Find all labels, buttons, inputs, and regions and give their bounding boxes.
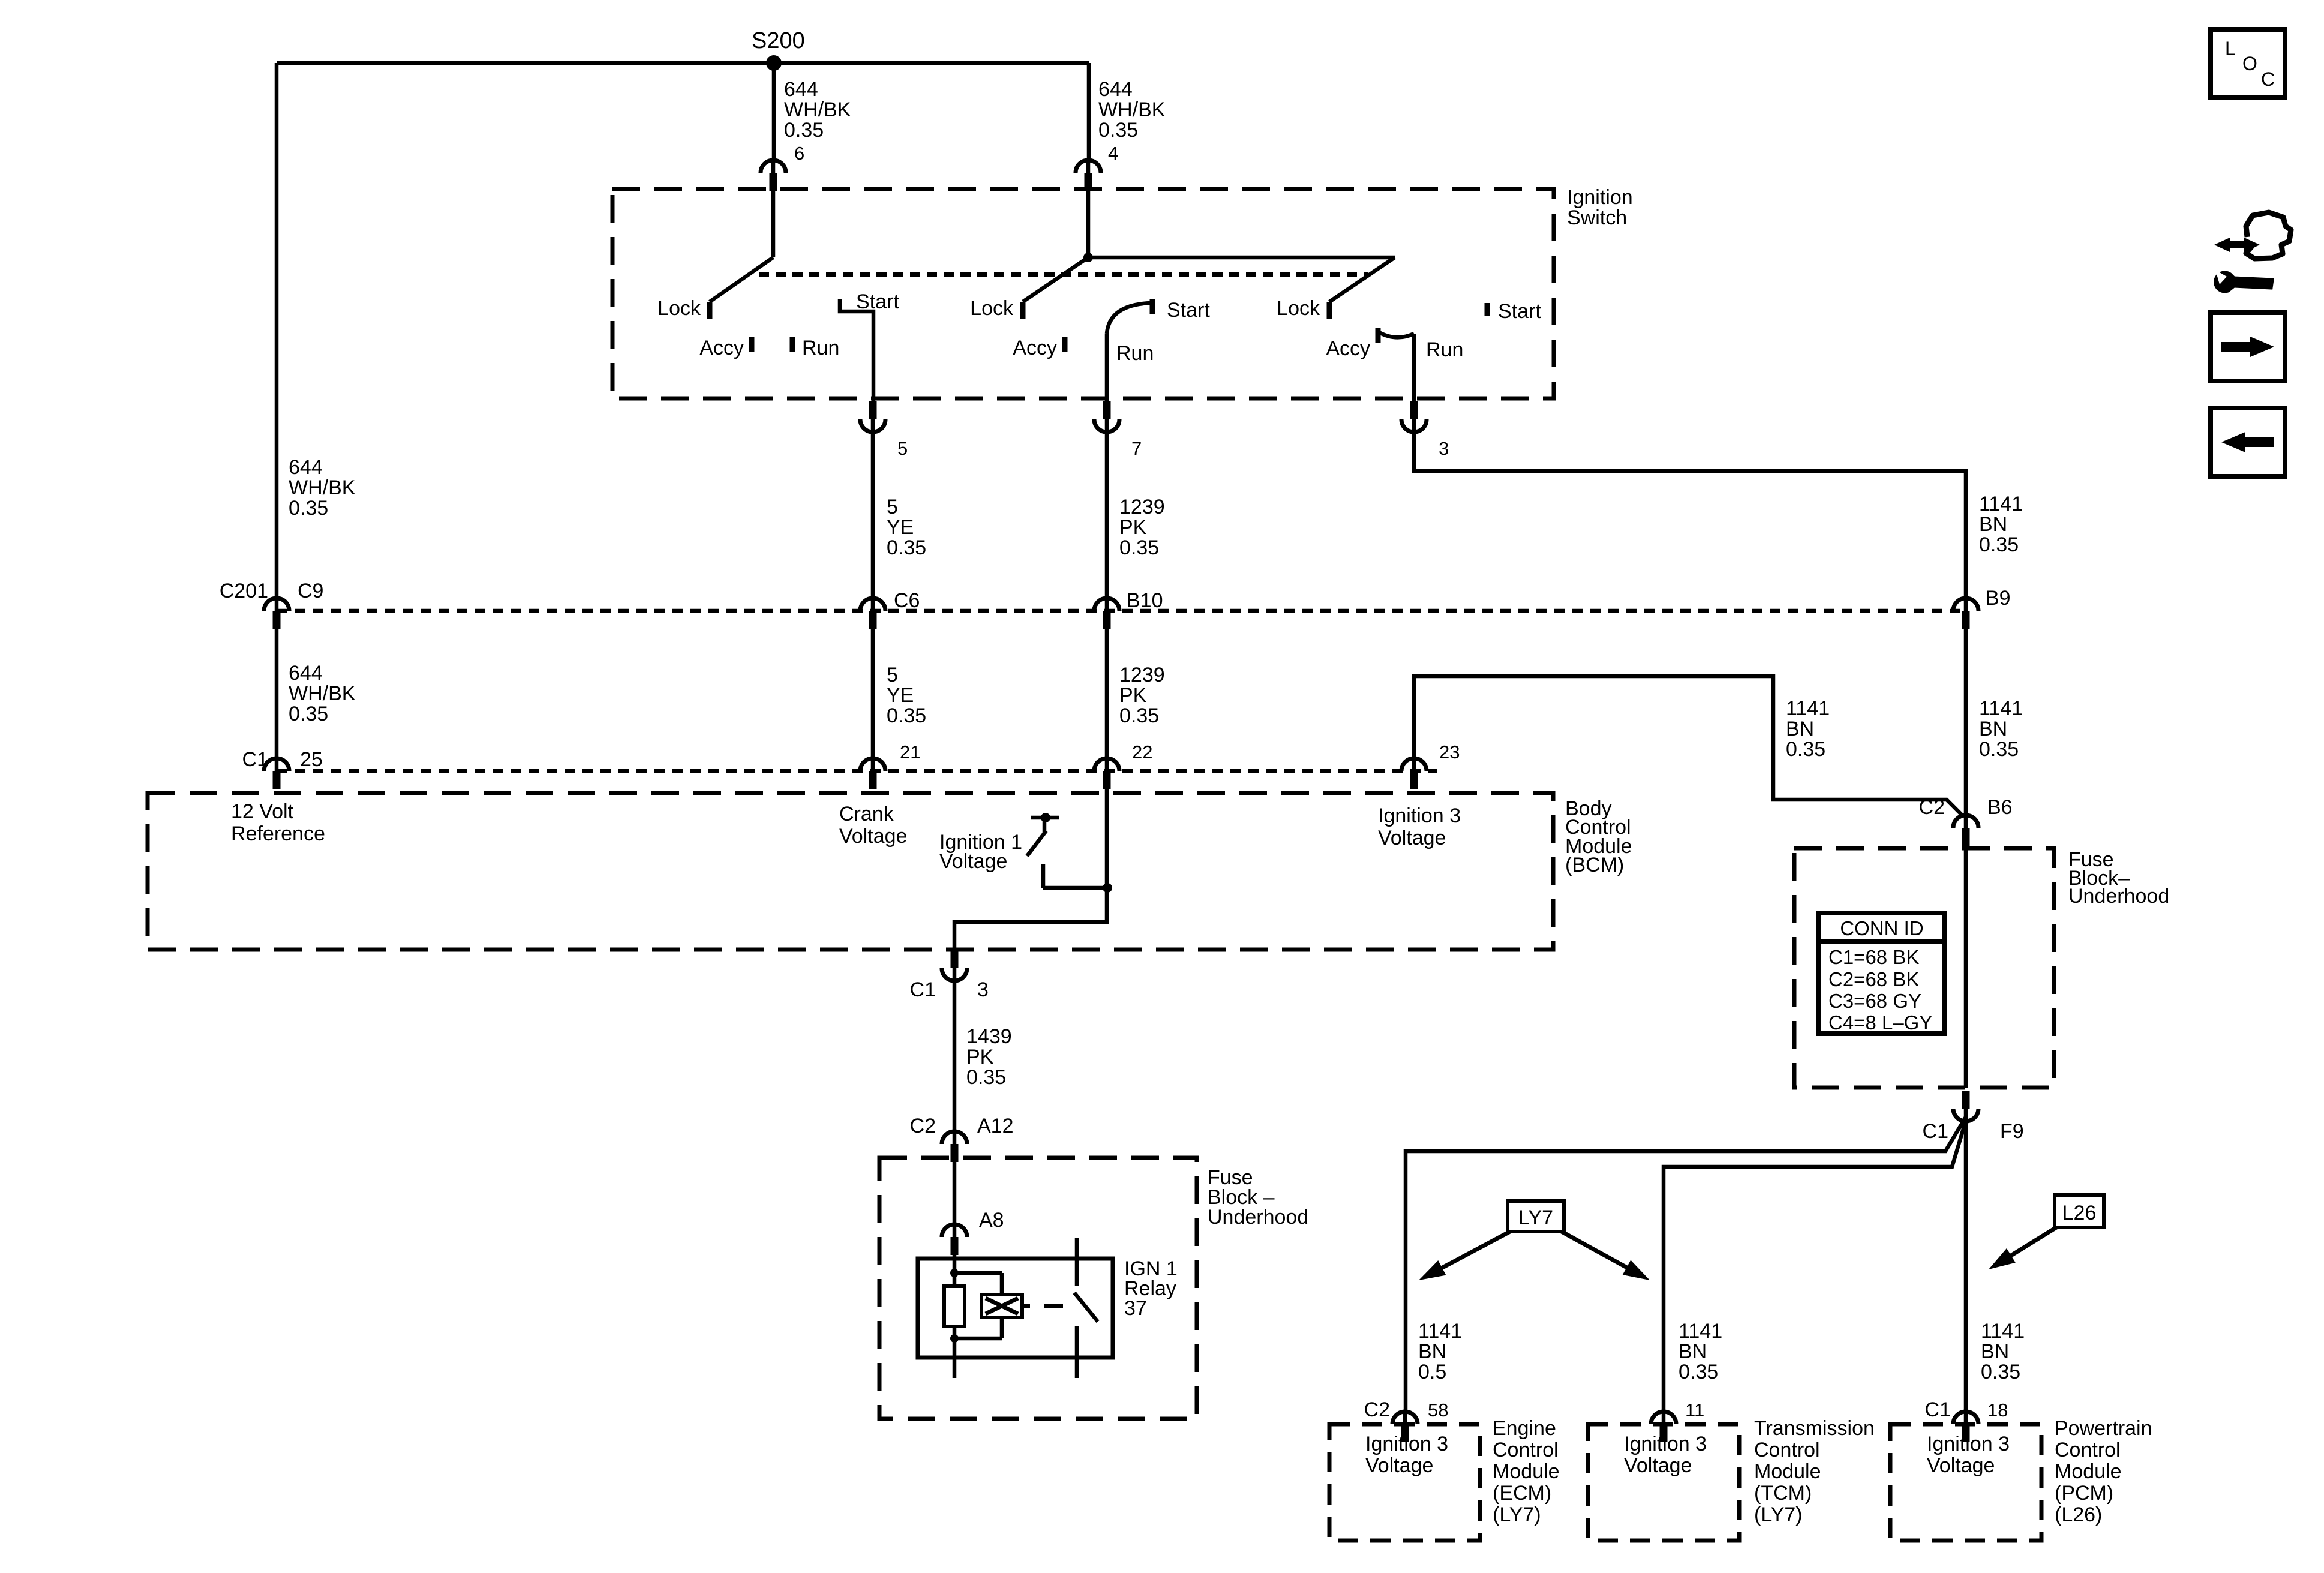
svg-text:L: L xyxy=(2225,38,2236,59)
svg-text:0.35: 0.35 xyxy=(289,497,328,520)
svg-text:Module: Module xyxy=(1493,1460,1560,1483)
svg-text:Powertrain: Powertrain xyxy=(2055,1417,2152,1440)
svg-text:WH/BK: WH/BK xyxy=(784,98,851,121)
svg-text:Reference: Reference xyxy=(231,822,325,845)
svg-text:23: 23 xyxy=(1439,742,1460,763)
svg-text:L26: L26 xyxy=(2062,1202,2097,1224)
svg-text:Voltage: Voltage xyxy=(1378,827,1446,849)
svg-text:A8: A8 xyxy=(979,1209,1004,1232)
svg-text:1141: 1141 xyxy=(1786,697,1830,720)
svg-text:6: 6 xyxy=(794,143,804,164)
svg-text:Underhood: Underhood xyxy=(2068,885,2169,908)
svg-text:Voltage: Voltage xyxy=(839,825,907,848)
svg-text:0.35: 0.35 xyxy=(1979,738,2019,761)
svg-text:C1: C1 xyxy=(910,978,936,1001)
svg-text:1239: 1239 xyxy=(1119,496,1165,518)
svg-text:Voltage: Voltage xyxy=(1365,1454,1433,1477)
svg-text:644: 644 xyxy=(289,456,323,479)
svg-text:(BCM): (BCM) xyxy=(1565,854,1624,876)
svg-text:0.35: 0.35 xyxy=(1098,119,1138,142)
svg-text:Accy: Accy xyxy=(1013,337,1057,359)
svg-text:0.35: 0.35 xyxy=(966,1066,1006,1089)
svg-text:25: 25 xyxy=(300,748,323,771)
svg-text:(TCM): (TCM) xyxy=(1754,1482,1812,1505)
svg-text:YE: YE xyxy=(887,684,914,707)
svg-text:Ignition 3: Ignition 3 xyxy=(1624,1433,1707,1455)
svg-text:1141: 1141 xyxy=(1979,493,2023,515)
svg-text:C: C xyxy=(2261,68,2275,90)
svg-text:S200: S200 xyxy=(752,28,805,53)
svg-text:Accy: Accy xyxy=(1326,337,1370,360)
svg-text:PK: PK xyxy=(966,1046,994,1068)
svg-text:C1: C1 xyxy=(242,748,268,771)
svg-text:644: 644 xyxy=(289,662,323,685)
svg-text:Module: Module xyxy=(1754,1460,1821,1483)
svg-text:WH/BK: WH/BK xyxy=(289,682,356,705)
svg-text:LY7: LY7 xyxy=(1518,1206,1553,1229)
svg-text:Control: Control xyxy=(2055,1439,2121,1461)
svg-text:C6: C6 xyxy=(894,589,920,612)
svg-text:Run: Run xyxy=(1116,342,1154,365)
svg-text:4: 4 xyxy=(1108,143,1118,164)
svg-text:(LY7): (LY7) xyxy=(1754,1503,1803,1526)
svg-text:5: 5 xyxy=(887,496,898,518)
svg-text:C2: C2 xyxy=(910,1115,936,1137)
svg-text:C201: C201 xyxy=(220,580,268,602)
svg-text:C4=8 L–GY: C4=8 L–GY xyxy=(1828,1011,1932,1034)
svg-text:37: 37 xyxy=(1124,1297,1147,1320)
svg-text:BN: BN xyxy=(1979,718,2007,740)
svg-text:(L26): (L26) xyxy=(2055,1503,2102,1526)
svg-text:C1: C1 xyxy=(1925,1398,1951,1421)
svg-text:58: 58 xyxy=(1428,1400,1448,1421)
svg-text:Switch: Switch xyxy=(1567,206,1627,229)
svg-text:C2=68 BK: C2=68 BK xyxy=(1828,968,1919,990)
svg-text:0.35: 0.35 xyxy=(1979,533,2019,556)
svg-text:1141: 1141 xyxy=(1418,1320,1462,1343)
svg-text:0.35: 0.35 xyxy=(1119,536,1159,559)
svg-text:Start: Start xyxy=(856,290,899,313)
svg-text:BN: BN xyxy=(1679,1340,1707,1363)
svg-text:Accy: Accy xyxy=(699,337,744,359)
svg-text:CONN ID: CONN ID xyxy=(1840,917,1923,939)
svg-text:WH/BK: WH/BK xyxy=(289,476,356,499)
svg-text:Lock: Lock xyxy=(657,297,701,320)
svg-text:0.35: 0.35 xyxy=(887,704,926,727)
svg-text:Ignition 3: Ignition 3 xyxy=(1927,1433,2010,1455)
svg-text:22: 22 xyxy=(1132,742,1152,763)
svg-text:Control: Control xyxy=(1493,1439,1559,1461)
svg-text:1141: 1141 xyxy=(1679,1320,1722,1343)
svg-text:0.35: 0.35 xyxy=(1981,1361,2020,1383)
svg-text:Crank: Crank xyxy=(839,803,894,825)
svg-text:1239: 1239 xyxy=(1119,664,1165,686)
svg-text:C9: C9 xyxy=(298,580,323,602)
svg-text:Voltage: Voltage xyxy=(1927,1454,1995,1477)
svg-text:0.35: 0.35 xyxy=(289,703,328,725)
svg-text:3: 3 xyxy=(1439,438,1449,459)
svg-text:Start: Start xyxy=(1167,299,1210,322)
svg-text:1439: 1439 xyxy=(966,1025,1012,1048)
svg-text:0.35: 0.35 xyxy=(1679,1361,1718,1383)
svg-text:B10: B10 xyxy=(1127,589,1163,612)
svg-text:C1=68 BK: C1=68 BK xyxy=(1828,946,1919,968)
svg-text:C3=68 GY: C3=68 GY xyxy=(1828,990,1921,1012)
svg-text:BN: BN xyxy=(1786,718,1814,740)
svg-text:Start: Start xyxy=(1498,300,1541,323)
svg-text:Underhood: Underhood xyxy=(1208,1206,1308,1229)
svg-text:PK: PK xyxy=(1119,684,1147,707)
svg-text:C2: C2 xyxy=(1364,1398,1390,1421)
svg-text:BN: BN xyxy=(1981,1340,2009,1363)
svg-text:Voltage: Voltage xyxy=(1624,1454,1692,1477)
svg-text:Lock: Lock xyxy=(1277,297,1320,320)
svg-text:(LY7): (LY7) xyxy=(1493,1503,1541,1526)
svg-text:A12: A12 xyxy=(977,1115,1014,1137)
svg-text:B6: B6 xyxy=(1987,796,2013,819)
svg-text:644: 644 xyxy=(1098,78,1133,101)
svg-text:7: 7 xyxy=(1131,438,1142,459)
svg-text:Ignition 3: Ignition 3 xyxy=(1365,1433,1448,1455)
svg-text:BN: BN xyxy=(1418,1340,1446,1363)
svg-text:1141: 1141 xyxy=(1979,697,2023,720)
svg-text:0.35: 0.35 xyxy=(887,536,926,559)
svg-text:Run: Run xyxy=(1426,338,1463,361)
svg-text:11: 11 xyxy=(1685,1400,1704,1421)
svg-text:Control: Control xyxy=(1754,1439,1820,1461)
svg-text:Module: Module xyxy=(2055,1460,2122,1483)
svg-text:Ignition 3: Ignition 3 xyxy=(1378,804,1461,827)
svg-text:BN: BN xyxy=(1979,513,2007,536)
svg-text:0.35: 0.35 xyxy=(1119,704,1159,727)
svg-text:Transmission: Transmission xyxy=(1754,1417,1875,1440)
svg-text:0.35: 0.35 xyxy=(784,119,824,142)
svg-text:0.5: 0.5 xyxy=(1418,1361,1446,1383)
svg-text:C1: C1 xyxy=(1923,1120,1948,1143)
svg-text:3: 3 xyxy=(977,978,989,1001)
svg-text:PK: PK xyxy=(1119,516,1147,539)
svg-text:Run: Run xyxy=(802,337,839,359)
svg-text:WH/BK: WH/BK xyxy=(1098,98,1166,121)
svg-text:B9: B9 xyxy=(1986,587,2011,610)
svg-text:Ignition: Ignition xyxy=(1567,186,1633,209)
svg-text:C2: C2 xyxy=(1919,796,1945,819)
svg-text:Voltage: Voltage xyxy=(939,850,1007,873)
svg-text:1141: 1141 xyxy=(1981,1320,2025,1343)
svg-text:F9: F9 xyxy=(2000,1120,2024,1143)
svg-text:5: 5 xyxy=(887,664,898,686)
svg-text:Lock: Lock xyxy=(970,297,1014,320)
svg-text:21: 21 xyxy=(900,742,920,763)
svg-text:644: 644 xyxy=(784,78,818,101)
svg-text:5: 5 xyxy=(897,438,908,459)
svg-text:Engine: Engine xyxy=(1493,1417,1556,1440)
svg-text:YE: YE xyxy=(887,516,914,539)
svg-text:18: 18 xyxy=(1987,1400,2008,1421)
svg-text:O: O xyxy=(2242,53,2257,74)
svg-text:(ECM): (ECM) xyxy=(1493,1482,1551,1505)
svg-text:12 Volt: 12 Volt xyxy=(231,800,294,823)
svg-text:0.35: 0.35 xyxy=(1786,738,1825,761)
svg-text:(PCM): (PCM) xyxy=(2055,1482,2113,1505)
